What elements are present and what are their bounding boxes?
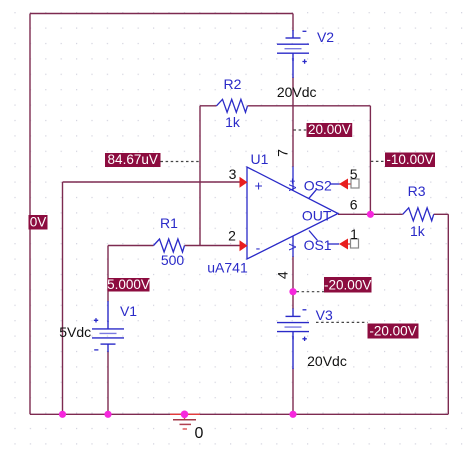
bias label -20.00V pin4 <box>324 277 372 293</box>
junction dot OUT node <box>367 211 374 218</box>
pin 1 red lead <box>347 243 351 245</box>
junction dot V1 / rail <box>104 411 111 418</box>
resistor R2 <box>217 99 248 112</box>
wire feedback vertical <box>369 106 371 215</box>
svg-text:V3: V3 <box>316 307 333 323</box>
op-amp OS2 stub <box>309 189 317 198</box>
junction dot V3 / rail <box>289 411 296 418</box>
svg-text:OS1: OS1 <box>304 237 332 253</box>
dashed leader -20.00V pin4 <box>297 291 325 293</box>
wire V2 bottom to pin7 <box>292 77 294 167</box>
pin 5 red lead <box>347 183 352 185</box>
resistor R3 <box>403 208 434 221</box>
svg-text:1: 1 <box>350 226 358 242</box>
svg-text:V1: V1 <box>120 303 137 319</box>
dashed leader -20.00V V3 <box>316 321 368 323</box>
svg-text:V+: V+ <box>287 178 299 191</box>
dashed leader 84.67uV <box>161 161 201 163</box>
bias label 84.67uV <box>105 152 161 167</box>
wire feedback horizontal R2 right <box>248 105 371 107</box>
svg-text:-10.00V: -10.00V <box>386 152 433 167</box>
op-amp OS1 stub <box>309 231 318 241</box>
wire R1 right to pin2 <box>185 245 241 247</box>
pin 3 current arrow <box>240 177 248 188</box>
svg-text:U1: U1 <box>251 151 269 167</box>
wire ground net top <box>30 13 293 15</box>
wire OUT to R3 <box>338 213 403 215</box>
battery V3 <box>277 308 309 339</box>
svg-text:500: 500 <box>161 252 185 268</box>
junction dot pin4 node <box>289 288 296 295</box>
wire R2 leg down to pin2 net <box>199 106 201 246</box>
svg-text:R2: R2 <box>224 76 242 92</box>
svg-text:1k: 1k <box>410 223 426 239</box>
battery V1 plus mark <box>94 318 98 322</box>
svg-text:1k: 1k <box>225 114 241 130</box>
svg-text:+: + <box>255 178 263 194</box>
battery V1 top pin stub <box>107 301 109 322</box>
resistor R1 <box>154 239 185 252</box>
svg-text:84.67uV: 84.67uV <box>108 152 158 167</box>
svg-text:-20.00V: -20.00V <box>324 277 371 292</box>
wire R1 left lead to V1 <box>108 245 154 247</box>
battery V3 plus mark <box>302 337 306 341</box>
bias label 0V <box>29 214 48 229</box>
op-amp V- stub <box>292 236 294 257</box>
svg-text:4: 4 <box>275 271 291 279</box>
junction dot ground / rail <box>181 411 189 419</box>
svg-text:uA741: uA741 <box>207 260 248 276</box>
wire pin3 leg down <box>62 182 64 414</box>
battery V2 extra bottom lead <box>292 58 294 78</box>
bias label 5.000V <box>107 277 150 292</box>
pin 5 current arrow <box>339 179 348 190</box>
wire V2 top lead <box>292 14 294 32</box>
svg-text:2: 2 <box>228 228 236 244</box>
wire pin4 to V3 <box>292 256 294 309</box>
ground symbol bar 2 <box>180 423 192 425</box>
svg-text:5Vdc: 5Vdc <box>59 324 91 340</box>
svg-text:-: - <box>256 240 261 256</box>
svg-text:7: 7 <box>275 149 291 157</box>
svg-text:OUT: OUT <box>302 208 332 224</box>
battery V3 extra bottom lead <box>292 336 294 369</box>
wire ground net left <box>29 14 31 415</box>
battery V2 <box>277 30 309 61</box>
svg-text:-20.00V: -20.00V <box>369 324 416 339</box>
bias label 20.00V <box>307 122 353 137</box>
pin 2 current arrow <box>240 240 248 251</box>
wire V3 bottom to rail <box>292 368 294 414</box>
wire ground rail red segment near ground symbol <box>170 413 200 415</box>
ground symbol bar 3 <box>183 428 187 430</box>
svg-text:0: 0 <box>195 425 204 442</box>
bias label -10.00V <box>385 152 435 167</box>
svg-text:5.000V: 5.000V <box>107 277 150 292</box>
svg-text:6: 6 <box>350 197 358 213</box>
op-amp U1 triangle <box>247 167 338 259</box>
svg-text:0V: 0V <box>30 214 47 229</box>
wire pin3 horizontal <box>63 181 241 183</box>
battery V3 minus mark <box>303 309 307 311</box>
svg-text:R1: R1 <box>160 215 178 231</box>
wire V1 bottom leg <box>107 351 109 414</box>
pin 5 open square <box>351 179 359 188</box>
bias label -20.00V V3 <box>368 324 419 339</box>
svg-text:20Vdc: 20Vdc <box>277 84 317 100</box>
dashed leader -10.00V <box>371 160 385 162</box>
dashed leader 20.00V <box>294 129 307 131</box>
svg-text:V2: V2 <box>317 29 334 45</box>
svg-text:20Vdc: 20Vdc <box>307 353 347 369</box>
battery V1 minus mark <box>94 349 98 351</box>
junction dot pin3 leg / rail <box>59 411 66 418</box>
svg-text:R3: R3 <box>408 183 426 199</box>
wire V1 top leg <box>107 246 109 302</box>
pin 1 current arrow <box>339 239 348 250</box>
battery V2 minus mark <box>303 30 307 32</box>
ground symbol bar 1 <box>173 419 196 421</box>
wire right edge from R3 down <box>447 214 449 414</box>
battery V2 plus mark <box>302 59 306 63</box>
svg-text:20.00V: 20.00V <box>308 122 351 137</box>
op-amp V+ stub <box>292 167 294 191</box>
op-amp OS1 pin line <box>328 243 340 245</box>
wire R2 left lead <box>200 105 217 107</box>
svg-text:V-: V- <box>287 240 299 250</box>
wire ground net bottom rail <box>30 413 448 415</box>
pin 1 open square <box>351 239 359 248</box>
battery V1 (flipped) <box>92 321 124 352</box>
op-amp OS2 pin line <box>330 183 340 185</box>
svg-text:3: 3 <box>229 166 237 182</box>
ground symbol stem <box>184 414 186 419</box>
svg-text:5: 5 <box>350 166 358 182</box>
wire R3 right lead <box>434 213 449 215</box>
svg-text:OS2: OS2 <box>304 178 332 194</box>
